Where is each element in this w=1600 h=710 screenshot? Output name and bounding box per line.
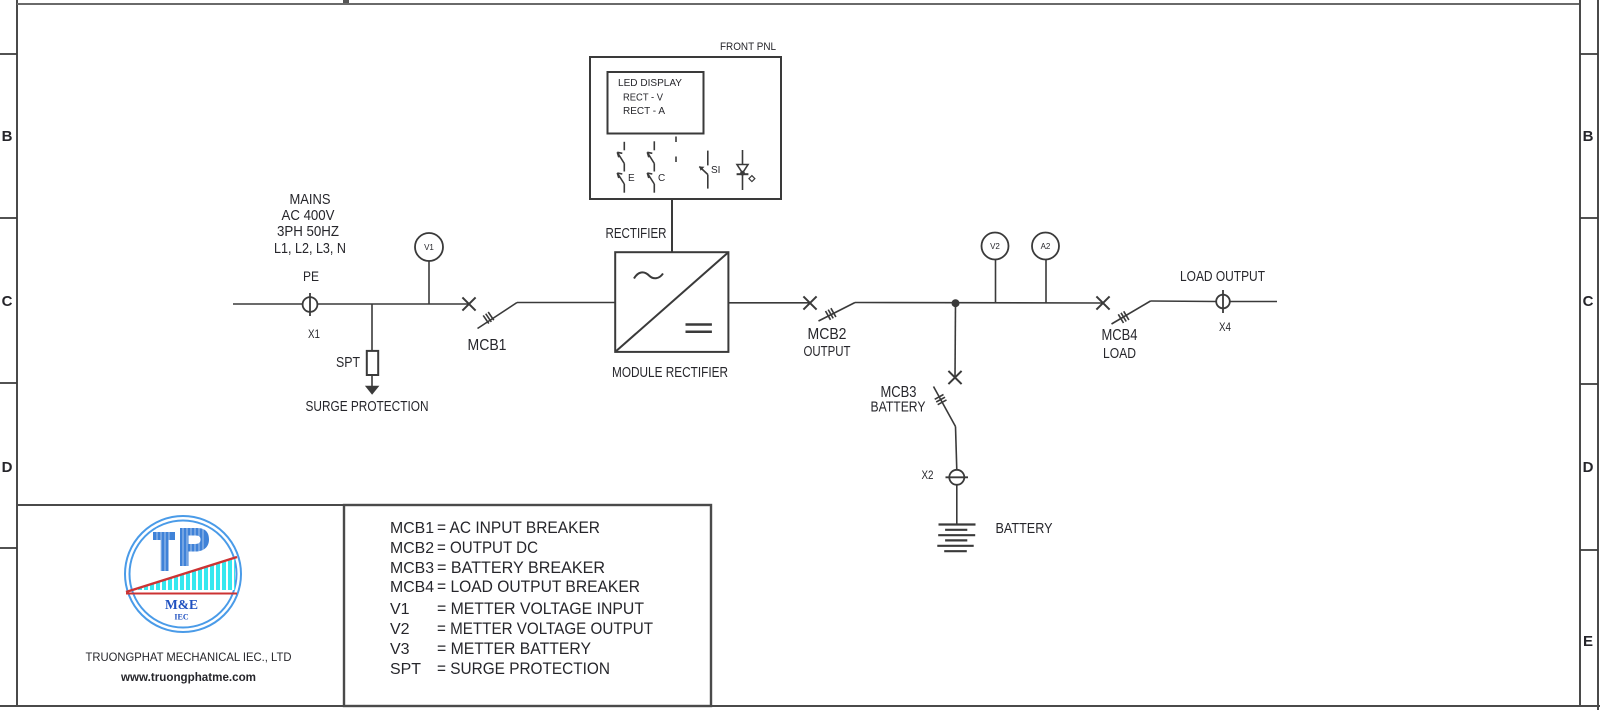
svg-text:V2: V2	[990, 242, 1000, 251]
svg-text:LOAD: LOAD	[1103, 345, 1136, 362]
connector X2	[946, 470, 969, 485]
breaker MCB2	[803, 296, 855, 321]
svg-text:SI: SI	[711, 165, 720, 176]
svg-text:MCB2: MCB2	[390, 540, 434, 557]
svg-text:V2: V2	[390, 621, 410, 638]
junction node	[952, 299, 960, 307]
svg-text:X4: X4	[1219, 320, 1231, 334]
zone tick top	[343, 0, 349, 3]
svg-text:V3: V3	[390, 641, 410, 658]
svg-text:MCB1: MCB1	[390, 520, 434, 537]
logo TP letters	[153, 526, 209, 572]
svg-text:IEC: IEC	[174, 613, 188, 622]
svg-text:www.truongphatme.com: www.truongphatme.com	[120, 672, 256, 684]
LED indicator	[737, 150, 755, 190]
svg-text:SURGE PROTECTION: SURGE PROTECTION	[306, 398, 429, 415]
svg-text:V1: V1	[424, 243, 434, 252]
legend text	[390, 519, 653, 678]
connector X1	[303, 293, 318, 316]
svg-text:RECT - A: RECT - A	[623, 105, 665, 117]
wire mains input	[233, 303, 303, 305]
svg-text:SPT: SPT	[336, 354, 360, 371]
svg-text:MCB2: MCB2	[808, 326, 847, 343]
svg-text:B: B	[1583, 128, 1594, 145]
svg-text:E: E	[1583, 633, 1593, 650]
zone tick marks left	[0, 54, 17, 548]
svg-text:MCB1: MCB1	[468, 337, 507, 354]
legend box	[344, 505, 711, 706]
svg-text:E: E	[628, 173, 635, 184]
svg-text:RECT - V: RECT - V	[623, 92, 663, 104]
logo TP circle	[125, 516, 241, 632]
svg-text:= LOAD OUTPUT BREAKER: = LOAD OUTPUT BREAKER	[437, 578, 640, 596]
connector X4	[1216, 290, 1230, 313]
svg-text:BATTERY: BATTERY	[996, 520, 1053, 537]
svg-text:X1: X1	[308, 327, 320, 341]
svg-text:MCB3: MCB3	[390, 560, 434, 577]
svg-text:= SURGE PROTECTION: = SURGE PROTECTION	[437, 660, 610, 678]
wire MCB1 to rectifier	[517, 302, 615, 304]
svg-text:A2: A2	[1041, 242, 1051, 251]
wire SPT tap	[371, 304, 373, 351]
meter A2	[1032, 233, 1059, 304]
svg-text:OUTPUT: OUTPUT	[804, 343, 851, 360]
svg-text:FRONT PNL: FRONT PNL	[720, 41, 776, 53]
svg-text:RECTIFIER: RECTIFIER	[606, 225, 667, 242]
svg-text:C: C	[1583, 293, 1594, 310]
svg-text:B: B	[2, 128, 13, 145]
switch E	[617, 142, 635, 193]
svg-text:C: C	[658, 173, 665, 184]
wire junction to MCB3	[954, 303, 957, 377]
breaker MCB4	[1096, 296, 1150, 324]
svg-text:V1: V1	[390, 601, 410, 618]
wire front panel to rectifier	[671, 199, 673, 252]
LED display box	[608, 72, 704, 134]
dashed link line	[675, 137, 677, 163]
wire MCB2 to MCB4	[855, 302, 1103, 305]
svg-text:C: C	[2, 293, 13, 310]
svg-text:D: D	[1583, 459, 1594, 476]
svg-text:= METTER BATTERY: = METTER BATTERY	[437, 640, 591, 658]
svg-text:L1, L2, L3, N: L1, L2, L3, N	[274, 240, 346, 257]
svg-text:= BATTERY BREAKER: = BATTERY BREAKER	[437, 559, 605, 577]
svg-text:D: D	[2, 459, 13, 476]
svg-text:M&E: M&E	[165, 597, 198, 612]
rectifier module box	[615, 252, 728, 352]
wire X1 to MCB1	[317, 303, 469, 305]
surge protector SPT	[365, 351, 380, 395]
title block	[17, 505, 344, 706]
svg-text:PE: PE	[303, 268, 319, 284]
breaker MCB1	[462, 297, 517, 328]
wire X2 to battery	[956, 485, 958, 524]
breaker MCB3	[934, 371, 962, 427]
switch C	[647, 141, 665, 192]
svg-text:= METTER VOLTAGE INPUT: = METTER VOLTAGE INPUT	[437, 600, 644, 618]
logo triangle	[126, 557, 237, 594]
svg-text:AC 400V: AC 400V	[282, 207, 335, 224]
svg-text:MAINS: MAINS	[290, 191, 331, 208]
svg-text:= METTER VOLTAGE OUTPUT: = METTER VOLTAGE OUTPUT	[437, 620, 653, 638]
meter V2	[982, 233, 1009, 304]
svg-text:X2: X2	[922, 468, 934, 482]
FRONT PNL box	[590, 57, 781, 199]
svg-text:MODULE RECTIFIER: MODULE RECTIFIER	[612, 364, 728, 381]
svg-text:= OUTPUT DC: = OUTPUT DC	[437, 539, 538, 557]
wire rectifier to MCB2	[728, 302, 810, 304]
svg-text:MCB4: MCB4	[390, 579, 434, 596]
svg-text:= AC INPUT BREAKER: = AC INPUT BREAKER	[437, 519, 600, 537]
svg-text:LED DISPLAY: LED DISPLAY	[618, 77, 682, 89]
battery	[937, 525, 975, 552]
wire X4 out	[1230, 301, 1277, 303]
switch SI	[699, 151, 720, 189]
svg-text:3PH 50HZ: 3PH 50HZ	[277, 223, 339, 240]
MAINS label	[274, 191, 346, 257]
svg-text:MCB4: MCB4	[1102, 327, 1138, 344]
wire MCB3 to X2	[956, 427, 957, 471]
svg-text:BATTERY: BATTERY	[871, 399, 926, 416]
wire MCB4 to X4	[1151, 300, 1217, 303]
zone tick marks right	[1580, 54, 1598, 550]
svg-text:LOAD OUTPUT: LOAD OUTPUT	[1180, 268, 1265, 285]
svg-text:TRUONGPHAT MECHANICAL IEC., LT: TRUONGPHAT MECHANICAL IEC., LTD	[86, 650, 292, 664]
meter V1	[415, 233, 443, 304]
svg-text:SPT: SPT	[390, 661, 421, 678]
